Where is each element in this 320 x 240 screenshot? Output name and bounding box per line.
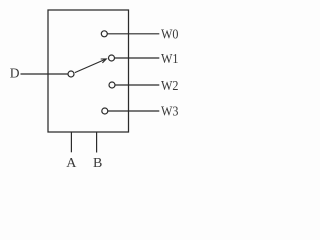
node W1 contact (109, 55, 115, 61)
svg-text:W2: W2 (161, 79, 179, 94)
svg-text:W0: W0 (161, 28, 179, 43)
wire W3 (108, 110, 160, 112)
svg-text:W1: W1 (161, 52, 179, 67)
svg-text:B: B (93, 156, 102, 171)
wire W2 (115, 84, 159, 86)
svg-text:W3: W3 (161, 105, 179, 120)
node W0 contact (101, 31, 107, 37)
wire W1 (115, 57, 160, 59)
wire D input (21, 73, 69, 75)
wire select lead A (70, 132, 72, 152)
node W2 contact (109, 82, 115, 88)
svg-text:D: D (10, 66, 20, 81)
wiper arrow SW1 (points to W1 contact) (75, 59, 107, 73)
selector switch body U1 (48, 10, 129, 132)
wire select lead B (96, 132, 98, 153)
svg-text:A: A (66, 156, 77, 171)
node D pole contact (68, 71, 74, 77)
node W3 contact (102, 108, 108, 114)
wire W0 (107, 33, 159, 35)
